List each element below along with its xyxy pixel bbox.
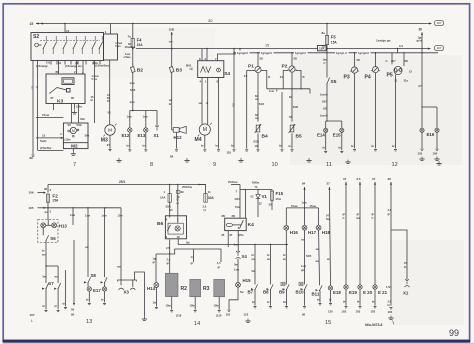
E18 bottom wire	[330, 290, 332, 302]
fuse 30A drop from bus25 corner	[199, 185, 206, 194]
junction split to H14 R2	[156, 253, 175, 255]
svg-text:Rt/5w: Rt/5w	[252, 181, 260, 185]
svg-text:B9: B9	[279, 289, 285, 294]
svg-text:1rt: 1rt	[399, 44, 403, 48]
svg-text:90: 90	[71, 312, 75, 316]
K4 junction dot	[238, 227, 239, 228]
wire E16 feed	[421, 53, 423, 107]
svg-text:13: 13	[86, 319, 92, 325]
svg-text:12: 12	[66, 29, 70, 33]
svg-text:14: 14	[194, 321, 200, 327]
B11 bottom wire	[319, 291, 321, 303]
svg-text:15: 15	[325, 320, 331, 326]
svg-text:br: br	[91, 98, 94, 102]
svg-text:30: 30	[44, 187, 48, 191]
sensor B2	[130, 67, 135, 73]
sensor B3	[169, 67, 174, 73]
branch to X1 bottom	[391, 230, 407, 280]
connector X1 top section	[155, 126, 159, 131]
svg-text:B11: B11	[312, 291, 320, 296]
wire F4 down to B2	[132, 51, 134, 67]
variable resistor B5	[289, 124, 296, 133]
P1 left pin wire 31	[247, 71, 255, 149]
wire branch89 into B6 pin2	[177, 218, 179, 223]
svg-text:S6: S6	[50, 236, 56, 241]
wire 15sw horizontal to M2	[36, 117, 63, 119]
svg-text:rt: rt	[324, 61, 326, 65]
svg-text:H15: H15	[243, 278, 252, 283]
svg-text:ws: ws	[316, 260, 320, 263]
K3 contact blade	[50, 88, 57, 94]
svg-text:10: 10	[272, 162, 278, 168]
svg-text:2,5: 2,5	[167, 257, 171, 261]
wire bus30 to fuse F4	[132, 24, 134, 39]
svg-text:15: 15	[409, 70, 412, 74]
K3 coil	[62, 78, 74, 85]
svg-text:1ws/rt: 1ws/rt	[320, 113, 328, 117]
svg-text:M2: M2	[71, 144, 78, 150]
S2 auxiliary box right	[104, 34, 118, 60]
svg-text:S7: S7	[48, 281, 54, 286]
svg-text:br: br	[339, 146, 342, 150]
svg-text:bw: bw	[357, 216, 362, 220]
svg-text:15w: 15w	[118, 213, 124, 217]
svg-text:1gr/ge/rt: 1gr/ge/rt	[261, 51, 272, 55]
svg-text:br: br	[323, 146, 326, 150]
lamp E17 pair	[87, 283, 89, 287]
svg-text:53/3: 53/3	[130, 88, 136, 92]
svg-text:7h: 7h	[255, 185, 258, 189]
B10 bottom wire	[304, 290, 306, 306]
svg-text:88: 88	[30, 156, 34, 160]
svg-text:9?: 9?	[326, 214, 329, 218]
svg-text:ws: ws	[283, 258, 287, 261]
svg-text:53: 53	[68, 123, 72, 127]
B6 blade	[167, 225, 170, 231]
svg-text:B8: B8	[263, 289, 269, 294]
rail to V1 F15	[240, 189, 272, 191]
svg-text:sw: sw	[255, 98, 259, 101]
wire to connector X1	[156, 111, 158, 127]
switch S8 pair	[87, 277, 90, 283]
wire K4 bottom to X4	[237, 231, 239, 252]
svg-text:br: br	[55, 304, 58, 308]
H15 ground route	[229, 287, 238, 309]
svg-text:103: 103	[356, 310, 361, 314]
svg-text:1ws: 1ws	[323, 57, 329, 61]
switch unit S4 box	[198, 61, 224, 78]
svg-text:B: B	[268, 75, 270, 79]
link rail P1 P2	[267, 88, 310, 90]
lamp E12	[128, 128, 132, 132]
resistor block R3	[190, 279, 201, 296]
svg-text:ws: ws	[45, 211, 49, 214]
H12 bottom wire	[176, 132, 178, 148]
E20 bottom wire	[359, 289, 361, 305]
P1 right pin riser	[262, 71, 267, 89]
svg-text:E18: E18	[333, 290, 341, 295]
svg-text:37: 37	[372, 177, 376, 181]
svg-text:ws: ws	[42, 253, 46, 256]
bus 25/1 lower	[48, 184, 206, 186]
svg-text:P1: P1	[248, 63, 254, 69]
svg-text:B7: B7	[248, 289, 254, 294]
H16 down to rail 245	[285, 230, 287, 284]
svg-text:53/6: 53/6	[293, 105, 299, 109]
svg-text:E 21: E 21	[378, 290, 388, 295]
wire S5 down to E14 E15 split	[326, 84, 328, 122]
svg-text:gn: gn	[301, 269, 305, 272]
svg-text:br: br	[351, 144, 354, 148]
lamp E15	[340, 128, 344, 132]
svg-text:15br: 15br	[76, 104, 83, 108]
svg-text:38: 38	[388, 177, 392, 181]
svg-text:15br: 15br	[214, 304, 220, 308]
ground under section 9	[238, 158, 243, 162]
svg-text:gr: gr	[388, 212, 391, 216]
switch S5	[326, 78, 329, 85]
wire 15br/sw under M2	[37, 118, 39, 151]
svg-text:9: 9	[213, 162, 216, 168]
svg-text:E19: E19	[349, 290, 357, 295]
lamp E21	[373, 285, 377, 289]
E16 ground wires	[421, 132, 423, 148]
svg-text:30: 30	[419, 27, 423, 31]
M2 pins from above	[71, 104, 73, 124]
svg-text:2,5: 2,5	[166, 246, 170, 250]
svg-text:ws: ws	[327, 258, 331, 261]
svg-text:br: br	[143, 143, 146, 147]
svg-text:(15br/5w: (15br/5w	[40, 146, 52, 150]
svg-text:37: 37	[327, 182, 331, 186]
switch S2 box	[31, 33, 104, 61]
svg-text:30A: 30A	[208, 196, 215, 200]
wire right of K3 down to M2	[94, 61, 96, 124]
wire S2 to K3 pin 86	[58, 61, 60, 75]
M2 title strip	[63, 142, 88, 144]
svg-text:15sw/ge: 15sw/ge	[125, 45, 136, 49]
svg-text:1,5/1: 1,5/1	[386, 285, 392, 289]
bus 105/15 lower-left	[44, 207, 121, 209]
svg-text:9?: 9?	[419, 84, 422, 88]
svg-text:(87a: (87a	[239, 233, 245, 237]
svg-text:ES/1: ES/1	[254, 140, 260, 144]
svg-text:B: B	[303, 75, 305, 79]
svg-text:sw: sw	[255, 117, 259, 120]
split rail E14 E15	[326, 120, 342, 122]
svg-text:8a: 8a	[322, 31, 326, 35]
svg-text:89: 89	[181, 190, 185, 194]
svg-text:E13: E13	[138, 133, 146, 138]
S2 contact circle	[35, 43, 39, 47]
svg-text:23/1: 23/1	[235, 197, 241, 201]
svg-text:130: 130	[328, 310, 333, 314]
svg-text:br: br	[388, 303, 391, 307]
svg-text:br: br	[343, 300, 346, 304]
svg-text:99: 99	[449, 328, 459, 338]
svg-text:P5: P5	[387, 72, 393, 78]
svg-text:1br: 1br	[255, 144, 259, 148]
motor M2 outer box	[63, 123, 88, 149]
svg-text:1sw: 1sw	[127, 115, 133, 119]
svg-text:84: 84	[302, 182, 306, 186]
connector X4	[236, 251, 240, 256]
svg-text:5 ws: 5 ws	[92, 77, 98, 81]
svg-text:103: 103	[371, 310, 376, 314]
K4 blade	[240, 220, 244, 228]
svg-text:15sw: 15sw	[310, 204, 317, 208]
svg-text:84: 84	[170, 155, 174, 159]
svg-text:15A: 15A	[137, 43, 144, 47]
svg-text:1sw: 1sw	[302, 200, 308, 204]
svg-text:1sw: 1sw	[269, 89, 274, 93]
svg-text:1sw: 1sw	[130, 100, 136, 104]
wire bus25 to fuse F2	[47, 185, 49, 193]
rail to R3 R4	[175, 249, 221, 262]
wire aux box to bus30	[110, 24, 112, 35]
wire feed to gauge P1	[257, 53, 259, 67]
svg-text:S8: S8	[91, 273, 97, 278]
svg-text:1gr/ge/rt: 1gr/ge/rt	[237, 51, 248, 55]
gauge P2	[287, 66, 296, 72]
wire rail to H17	[304, 208, 306, 225]
wire bus15 to S4 pin 6	[201, 49, 203, 61]
P4 ground wire	[375, 73, 377, 149]
svg-text:1,5: 1,5	[217, 261, 221, 265]
switch B10	[304, 284, 307, 290]
svg-text:H16: H16	[290, 230, 299, 235]
resistor block R2	[165, 273, 178, 296]
svg-text:1gr: 1gr	[153, 256, 157, 260]
svg-text:br: br	[289, 144, 292, 148]
bus 30 top	[36, 23, 432, 25]
M4 ground wire	[204, 135, 206, 149]
svg-text:1sw: 1sw	[143, 115, 149, 119]
svg-text:X1: X1	[154, 133, 160, 138]
svg-text:br: br	[329, 298, 332, 302]
svg-text:87: 87	[230, 233, 233, 237]
unit label 03 before B9	[281, 282, 285, 285]
wire S4 pin 7 feed	[218, 49, 241, 61]
fuse 15A on bus25	[169, 185, 171, 194]
wire bus105 to S8 left	[87, 208, 89, 277]
svg-text:15sw: 15sw	[291, 204, 298, 208]
connector X3 bracket	[118, 280, 137, 282]
svg-text:58: 58	[405, 59, 409, 63]
svg-text:84: 84	[289, 95, 292, 99]
bus 15 second	[136, 48, 431, 50]
svg-text:gr: gr	[191, 261, 194, 265]
P5 feed wires	[391, 53, 393, 65]
svg-text:H17: H17	[308, 230, 317, 235]
svg-text:9?: 9?	[107, 143, 110, 147]
labels on feed line	[236, 51, 250, 55]
wire B6 pin8 to rail 15sw	[177, 239, 179, 245]
svg-text:X1: X1	[403, 290, 409, 295]
M2 ground	[72, 149, 74, 152]
svg-text:1ws/rt: 1ws/rt	[320, 92, 328, 96]
svg-text:15A: 15A	[276, 197, 282, 201]
switch S6	[45, 235, 48, 241]
svg-text:1: 1	[164, 190, 166, 194]
ground under section 11	[345, 160, 350, 164]
wire P1 to B4	[257, 73, 259, 122]
svg-text:X3: X3	[124, 290, 130, 295]
svg-text:rt: rt	[386, 59, 388, 63]
svg-text:1: 1	[205, 80, 207, 84]
svg-text:30: 30	[269, 202, 272, 206]
B4 ground wire	[257, 133, 259, 148]
P3 ground wire	[354, 73, 356, 148]
svg-text:H14: H14	[147, 286, 156, 291]
E21 bottom wire	[374, 289, 376, 305]
svg-text:gr: gr	[372, 212, 375, 216]
wire to R2	[169, 254, 171, 273]
wire 15 sw/h arrow into M2 box	[36, 137, 63, 139]
wire rail to H16	[285, 208, 287, 225]
svg-text:K3: K3	[57, 98, 64, 104]
svg-text:25/1: 25/1	[166, 205, 172, 209]
fuse F15 15A	[271, 190, 273, 192]
lamp E16 pair	[420, 128, 424, 132]
K4 bottom second wire	[227, 231, 229, 247]
svg-text:F15: F15	[276, 191, 284, 196]
lamp E20	[358, 285, 362, 289]
ground under section 12 right	[436, 161, 441, 165]
svg-text:5 ws: 5 ws	[115, 44, 121, 48]
svg-text:107: 107	[30, 313, 35, 317]
svg-text:B6: B6	[157, 221, 164, 227]
svg-text:(1: (1	[177, 201, 180, 205]
horn H12	[173, 126, 186, 133]
switch B11	[319, 285, 322, 291]
motor M3	[103, 124, 116, 137]
P2 left down wire	[281, 92, 283, 149]
svg-text:F5: F5	[331, 35, 337, 40]
wire S2 area to M3	[109, 61, 111, 125]
ground under section 8	[184, 158, 189, 162]
unit B6 box	[165, 216, 186, 239]
svg-text:br: br	[252, 253, 255, 257]
lamp E13	[144, 128, 148, 132]
wire S4 pin8 down	[218, 78, 220, 149]
B8 bottom wire	[270, 290, 272, 306]
svg-text:rt: rt	[343, 216, 345, 220]
svg-text:S4: S4	[224, 71, 230, 77]
svg-text:E17: E17	[93, 288, 101, 293]
svg-text:3: 3	[50, 209, 52, 213]
wire bus25 end to K4	[231, 184, 240, 186]
svg-text:B10: B10	[296, 289, 305, 294]
switch S7 pair	[45, 283, 48, 289]
wire B3 down to horn H12	[171, 73, 173, 127]
svg-text:M: M	[108, 128, 112, 134]
svg-text:E15: E15	[333, 132, 341, 137]
unit label 29 before B10	[299, 282, 303, 285]
svg-text:52: 52	[251, 194, 254, 198]
svg-text:12: 12	[392, 162, 398, 168]
wire bus30 to S2 pin 12	[64, 24, 66, 33]
svg-text:31: 31	[395, 79, 398, 83]
P5 ground wire	[395, 75, 397, 149]
svg-text:br: br	[169, 102, 172, 106]
svg-text:8: 8	[150, 162, 153, 168]
S2 linkage dashed	[40, 40, 100, 42]
svg-text:50: 50	[71, 307, 75, 311]
S4 motor-position circle	[217, 68, 221, 72]
svg-text:86: 86	[56, 70, 60, 74]
svg-text:rt: rt	[206, 101, 208, 105]
wire to lamp E12	[129, 111, 131, 128]
svg-text:br: br	[404, 265, 407, 269]
svg-text:E12: E12	[122, 133, 130, 138]
wire feed to gauge P3	[354, 53, 356, 67]
svg-text:15: 15	[30, 22, 34, 26]
svg-text:br: br	[42, 248, 45, 252]
svg-text:905: 905	[232, 103, 235, 108]
svg-text:E14: E14	[317, 132, 325, 137]
motor M4	[198, 123, 212, 137]
S4 contact blades	[201, 67, 206, 73]
svg-text:15A: 15A	[160, 196, 166, 200]
svg-text:(118: (118	[176, 313, 182, 317]
svg-text:6: 6	[166, 217, 168, 221]
svg-text:107: 107	[436, 46, 441, 50]
wire fuse1 to B6	[169, 202, 171, 217]
lamp H16	[284, 225, 289, 230]
E17 ground wires	[88, 291, 90, 302]
S7 split rail	[46, 265, 58, 267]
svg-text:5w: 5w	[186, 240, 191, 244]
svg-text:7: 7	[73, 162, 76, 168]
wire to H14	[155, 254, 157, 282]
connector box 15A on bus15	[318, 45, 327, 50]
svg-text:br: br	[392, 144, 395, 148]
svg-text:30a: 30a	[85, 133, 90, 137]
node 107 right end bus15	[434, 45, 443, 50]
svg-text:53: 53	[289, 115, 292, 119]
svg-text:85: 85	[222, 233, 225, 237]
svg-text:br: br	[86, 298, 89, 302]
svg-text:9/: 9/	[177, 198, 179, 202]
svg-text:gr: gr	[343, 212, 346, 216]
svg-text:1gr/gn/rt: 1gr/gn/rt	[295, 51, 306, 55]
svg-text:br: br	[252, 300, 255, 304]
svg-text:31b: 31b	[80, 117, 85, 121]
svg-text:30?: 30?	[391, 59, 396, 63]
wire F5 through bus15 to S5	[326, 45, 328, 78]
svg-text:1sw/ge gn: 1sw/ge gn	[376, 39, 391, 43]
svg-text:2,5: 2,5	[357, 177, 361, 181]
svg-text:P4: P4	[365, 74, 371, 80]
svg-text:P2: P2	[282, 63, 288, 69]
svg-text:br: br	[357, 300, 360, 304]
ground under section 10	[306, 158, 311, 162]
svg-text:(120: (120	[216, 313, 222, 317]
svg-text:br: br	[279, 143, 282, 147]
motor M2 circle	[70, 127, 76, 133]
svg-text:1gr/gn rt: 1gr/gn rt	[336, 51, 347, 55]
lamp H15	[236, 282, 241, 287]
svg-text:85: 85	[71, 96, 74, 100]
svg-text:32: 32	[259, 201, 262, 205]
svg-text:53/2: 53/2	[259, 102, 265, 106]
wires S4 to motor M4	[201, 78, 203, 125]
svg-text:gr: gr	[357, 212, 360, 216]
svg-text:M4: M4	[195, 137, 202, 143]
svg-text:4: 4	[200, 80, 202, 84]
H14 ground	[155, 287, 157, 306]
